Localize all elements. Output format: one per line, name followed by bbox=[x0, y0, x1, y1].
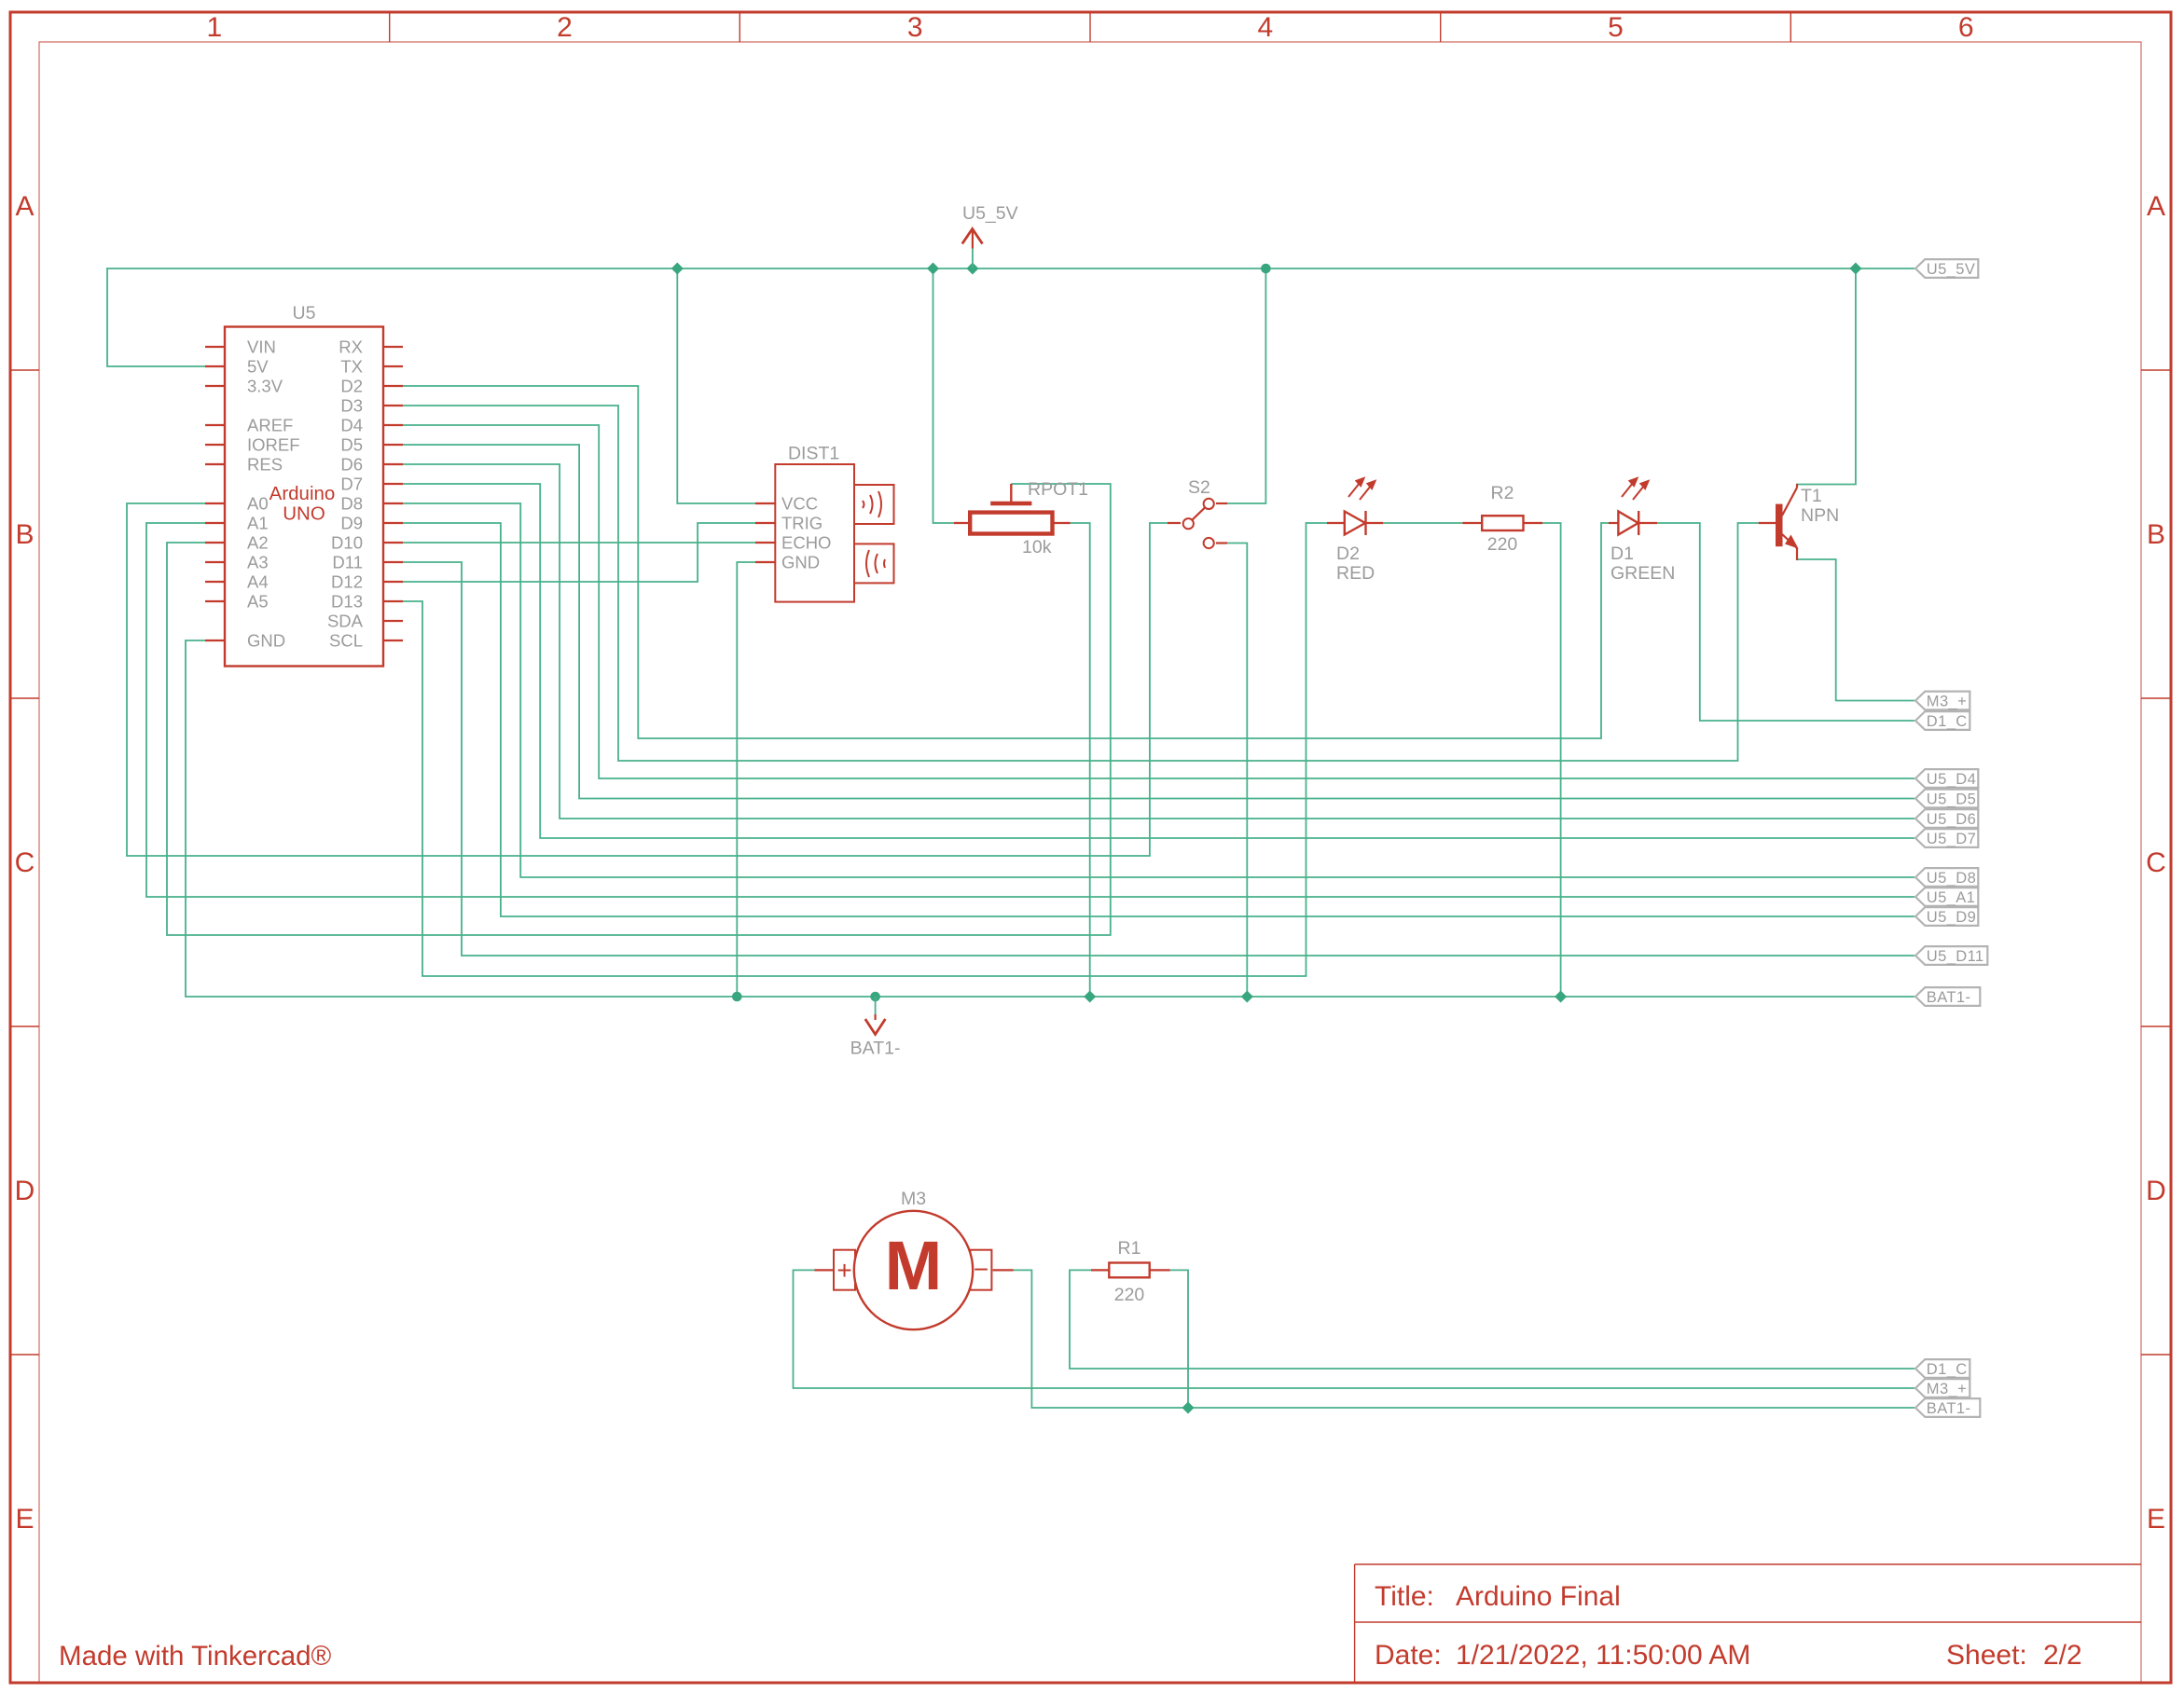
svg-text:Date:: Date: bbox=[1375, 1640, 1442, 1671]
svg-text:−: − bbox=[974, 1255, 988, 1284]
svg-text:D12: D12 bbox=[331, 571, 363, 591]
svg-text:TX: TX bbox=[340, 356, 363, 376]
net flag D1_C at y=773 bbox=[1915, 711, 1970, 730]
svg-text:U5_D6: U5_D6 bbox=[1927, 811, 1976, 828]
svg-text:SDA: SDA bbox=[327, 611, 364, 630]
svg-text:U5_D8: U5_D8 bbox=[1927, 870, 1976, 887]
svg-text:RED: RED bbox=[1336, 563, 1375, 584]
svg-text:B: B bbox=[15, 519, 34, 550]
svg-text:U5_D11: U5_D11 bbox=[1927, 948, 1984, 965]
svg-text:R2: R2 bbox=[1491, 483, 1514, 503]
svg-text:D10: D10 bbox=[331, 532, 363, 552]
svg-text:Made with Tinkercad®: Made with Tinkercad® bbox=[59, 1641, 332, 1672]
svg-text:A3: A3 bbox=[247, 552, 269, 571]
svg-text:220: 220 bbox=[1487, 534, 1518, 555]
svg-text:VCC: VCC bbox=[781, 493, 818, 513]
svg-text:C: C bbox=[2146, 847, 2166, 878]
net flag BAT1- at y=1510 bbox=[1915, 1398, 1980, 1417]
svg-text:220: 220 bbox=[1114, 1285, 1145, 1305]
wire net BAT1- bottom (motor - and R1 to flag) bbox=[1014, 1270, 1914, 1408]
svg-text:GND: GND bbox=[247, 630, 285, 650]
wire net U5_D6 bbox=[401, 464, 1914, 819]
Arduino UNO U5 bbox=[205, 303, 403, 667]
slide switch S2 bbox=[1168, 477, 1227, 548]
svg-text:10k: 10k bbox=[1022, 537, 1052, 557]
svg-text:GREEN: GREEN bbox=[1610, 563, 1675, 584]
svg-text:D13: D13 bbox=[331, 591, 363, 611]
svg-text:2: 2 bbox=[557, 12, 573, 43]
svg-text:3: 3 bbox=[907, 12, 923, 43]
ultrasonic distance sensor DIST1 bbox=[755, 444, 894, 602]
svg-text:VIN: VIN bbox=[247, 337, 276, 356]
net flag M3_+ at y=1489 bbox=[1915, 1379, 1970, 1397]
net flag U5_D8 at y=941 bbox=[1915, 868, 1978, 887]
svg-text:U5_5V: U5_5V bbox=[1927, 261, 1975, 278]
svg-text:DIST1: DIST1 bbox=[788, 444, 839, 464]
svg-text:5: 5 bbox=[1608, 12, 1624, 43]
svg-text:D9: D9 bbox=[340, 513, 363, 532]
resistor R2 220 bbox=[1383, 483, 1542, 555]
svg-text:R1: R1 bbox=[1118, 1238, 1141, 1259]
wire net U5_D9 bbox=[401, 523, 1914, 916]
svg-text:D8: D8 bbox=[340, 493, 363, 513]
svg-text:D1: D1 bbox=[1610, 544, 1634, 564]
svg-text:Arduino: Arduino bbox=[270, 483, 336, 504]
svg-text:2/2: 2/2 bbox=[2043, 1640, 2082, 1671]
net flag U5_A1 at y=962 bbox=[1915, 888, 1978, 906]
svg-text:NPN: NPN bbox=[1801, 505, 1839, 526]
svg-text:M3_+: M3_+ bbox=[1927, 1381, 1967, 1397]
svg-text:UNO: UNO bbox=[283, 503, 325, 525]
svg-text:U5: U5 bbox=[293, 303, 316, 323]
wire net U5_D13 to LED D2 anode bbox=[401, 523, 1327, 976]
svg-text:S2: S2 bbox=[1188, 477, 1210, 498]
svg-text:6: 6 bbox=[1958, 12, 1974, 43]
svg-text:SCL: SCL bbox=[329, 630, 363, 650]
junction dots 5V rail bbox=[671, 263, 1862, 275]
wire net M3_+ (T1 emitter to flag) bbox=[1796, 559, 1914, 701]
svg-text:Arduino Final: Arduino Final bbox=[1456, 1581, 1621, 1612]
svg-text:U5_D4: U5_D4 bbox=[1927, 771, 1976, 788]
net flag BAT1- at y=1069 bbox=[1915, 987, 1980, 1006]
svg-text:A0: A0 bbox=[247, 493, 269, 513]
svg-text:A2: A2 bbox=[247, 532, 269, 552]
svg-text:Title:: Title: bbox=[1375, 1581, 1434, 1612]
svg-text:A1: A1 bbox=[247, 513, 269, 532]
net flag U5_D7 at y=899 bbox=[1915, 829, 1978, 847]
svg-text:1: 1 bbox=[206, 12, 222, 43]
wire net U5_D4 bbox=[401, 425, 1914, 778]
net flag U5_D9 at y=983 bbox=[1915, 907, 1978, 926]
motor M3 bbox=[815, 1189, 1014, 1329]
svg-text:TRIG: TRIG bbox=[781, 513, 822, 532]
svg-text:D3: D3 bbox=[340, 395, 363, 415]
svg-text:A5: A5 bbox=[247, 591, 269, 611]
svg-text:D5: D5 bbox=[340, 434, 363, 454]
svg-text:RPOT1: RPOT1 bbox=[1028, 479, 1088, 500]
svg-text:1/21/2022, 11:50:00 AM: 1/21/2022, 11:50:00 AM bbox=[1456, 1640, 1750, 1671]
wire net U5_D5 bbox=[401, 445, 1914, 799]
svg-text:U5_5V: U5_5V bbox=[962, 203, 1018, 224]
svg-text:BAT1-: BAT1- bbox=[1927, 1400, 1971, 1417]
wire net D1_C bottom (R1 left to flag) bbox=[1070, 1270, 1914, 1369]
svg-text:B: B bbox=[2147, 519, 2165, 550]
svg-text:3.3V: 3.3V bbox=[247, 376, 283, 395]
wire net U5_D11 bbox=[401, 562, 1914, 956]
svg-text:M: M bbox=[885, 1227, 943, 1304]
svg-text:C: C bbox=[15, 847, 35, 878]
svg-text:U5_D7: U5_D7 bbox=[1927, 831, 1976, 847]
wire net U5_D2 to LED D1 anode bbox=[401, 386, 1609, 738]
svg-text:A4: A4 bbox=[247, 571, 269, 591]
svg-text:D2: D2 bbox=[340, 376, 363, 395]
svg-text:+: + bbox=[836, 1256, 851, 1285]
net flag D1_C at y=1468 bbox=[1915, 1359, 1970, 1378]
wire net BAT1- rail bbox=[186, 523, 1914, 997]
LED D1 GREEN bbox=[1609, 478, 1675, 584]
wire net U5_A0 to S2 common bbox=[127, 503, 1168, 856]
net flag U5_D5 at y=856.5 bbox=[1915, 790, 1978, 808]
net flag U5_5V at y=288 bbox=[1915, 259, 1978, 278]
svg-text:4: 4 bbox=[1257, 12, 1273, 43]
power flag U5_5V arrow bbox=[962, 203, 1018, 268]
wire net M3_+ bottom (motor + to flag) bbox=[794, 1270, 1915, 1388]
wire net U5_A1 bbox=[146, 523, 1914, 897]
svg-text:IOREF: IOREF bbox=[247, 434, 300, 454]
svg-text:U5_D5: U5_D5 bbox=[1927, 791, 1976, 808]
potentiometer RPOT1 bbox=[954, 479, 1088, 557]
svg-text:U5_D9: U5_D9 bbox=[1927, 909, 1976, 926]
svg-text:T1: T1 bbox=[1801, 486, 1822, 506]
svg-text:D2: D2 bbox=[1336, 544, 1360, 564]
svg-text:GND: GND bbox=[781, 552, 820, 571]
svg-text:A: A bbox=[2147, 191, 2165, 222]
wire net U5_A2 to RPOT1 wiper bbox=[167, 484, 1111, 935]
ground flag BAT1- arrow bbox=[850, 997, 901, 1059]
wire net U5_D7 bbox=[401, 484, 1914, 838]
svg-text:E: E bbox=[15, 1504, 34, 1535]
svg-text:D1_C: D1_C bbox=[1927, 713, 1968, 730]
wire net U5_5V rail bbox=[107, 268, 1914, 523]
svg-text:M3: M3 bbox=[901, 1189, 926, 1209]
net flag U5_D4 at y=835 bbox=[1915, 769, 1978, 788]
wire net U5_D10 to DIST1 ECHO bbox=[401, 542, 756, 544]
svg-text:M3_+: M3_+ bbox=[1927, 694, 1967, 710]
resistor R1 220 bbox=[1091, 1238, 1170, 1305]
wire net D1_C (D1 cathode to flag) bbox=[1657, 523, 1914, 721]
svg-text:5V: 5V bbox=[247, 356, 269, 376]
transistor T1 NPN bbox=[1759, 484, 1839, 560]
junction dot R1 right bbox=[1182, 1402, 1195, 1414]
svg-text:RES: RES bbox=[247, 454, 283, 474]
svg-text:U5_A1: U5_A1 bbox=[1927, 889, 1975, 906]
svg-text:E: E bbox=[2147, 1504, 2165, 1535]
svg-text:RX: RX bbox=[339, 337, 363, 356]
svg-text:AREF: AREF bbox=[247, 415, 293, 434]
svg-text:BAT1-: BAT1- bbox=[1927, 989, 1971, 1006]
svg-text:D4: D4 bbox=[340, 415, 363, 434]
svg-text:ECHO: ECHO bbox=[781, 532, 831, 552]
net flag U5_D6 at y=878 bbox=[1915, 809, 1978, 828]
svg-text:D11: D11 bbox=[332, 552, 363, 571]
svg-text:D7: D7 bbox=[340, 474, 363, 493]
wire net U5_D8 bbox=[401, 503, 1914, 877]
net flag U5_D11 at y=1025 bbox=[1915, 946, 1987, 965]
svg-text:D1_C: D1_C bbox=[1927, 1361, 1968, 1378]
wire net U5_D12 to DIST1 TRIG bbox=[401, 523, 756, 582]
svg-text:D: D bbox=[2146, 1176, 2166, 1206]
svg-text:A: A bbox=[15, 191, 34, 222]
svg-text:BAT1-: BAT1- bbox=[850, 1039, 901, 1059]
LED D2 RED bbox=[1327, 478, 1383, 584]
svg-text:Sheet:: Sheet: bbox=[1946, 1640, 2027, 1671]
svg-text:D: D bbox=[15, 1176, 35, 1206]
net flag M3_+ at y=751.5 bbox=[1915, 692, 1970, 710]
svg-text:D6: D6 bbox=[340, 454, 363, 474]
wire net U5_D3 to T1 base bbox=[401, 406, 1759, 761]
junction dots BAT1- rail bbox=[732, 991, 1567, 1003]
